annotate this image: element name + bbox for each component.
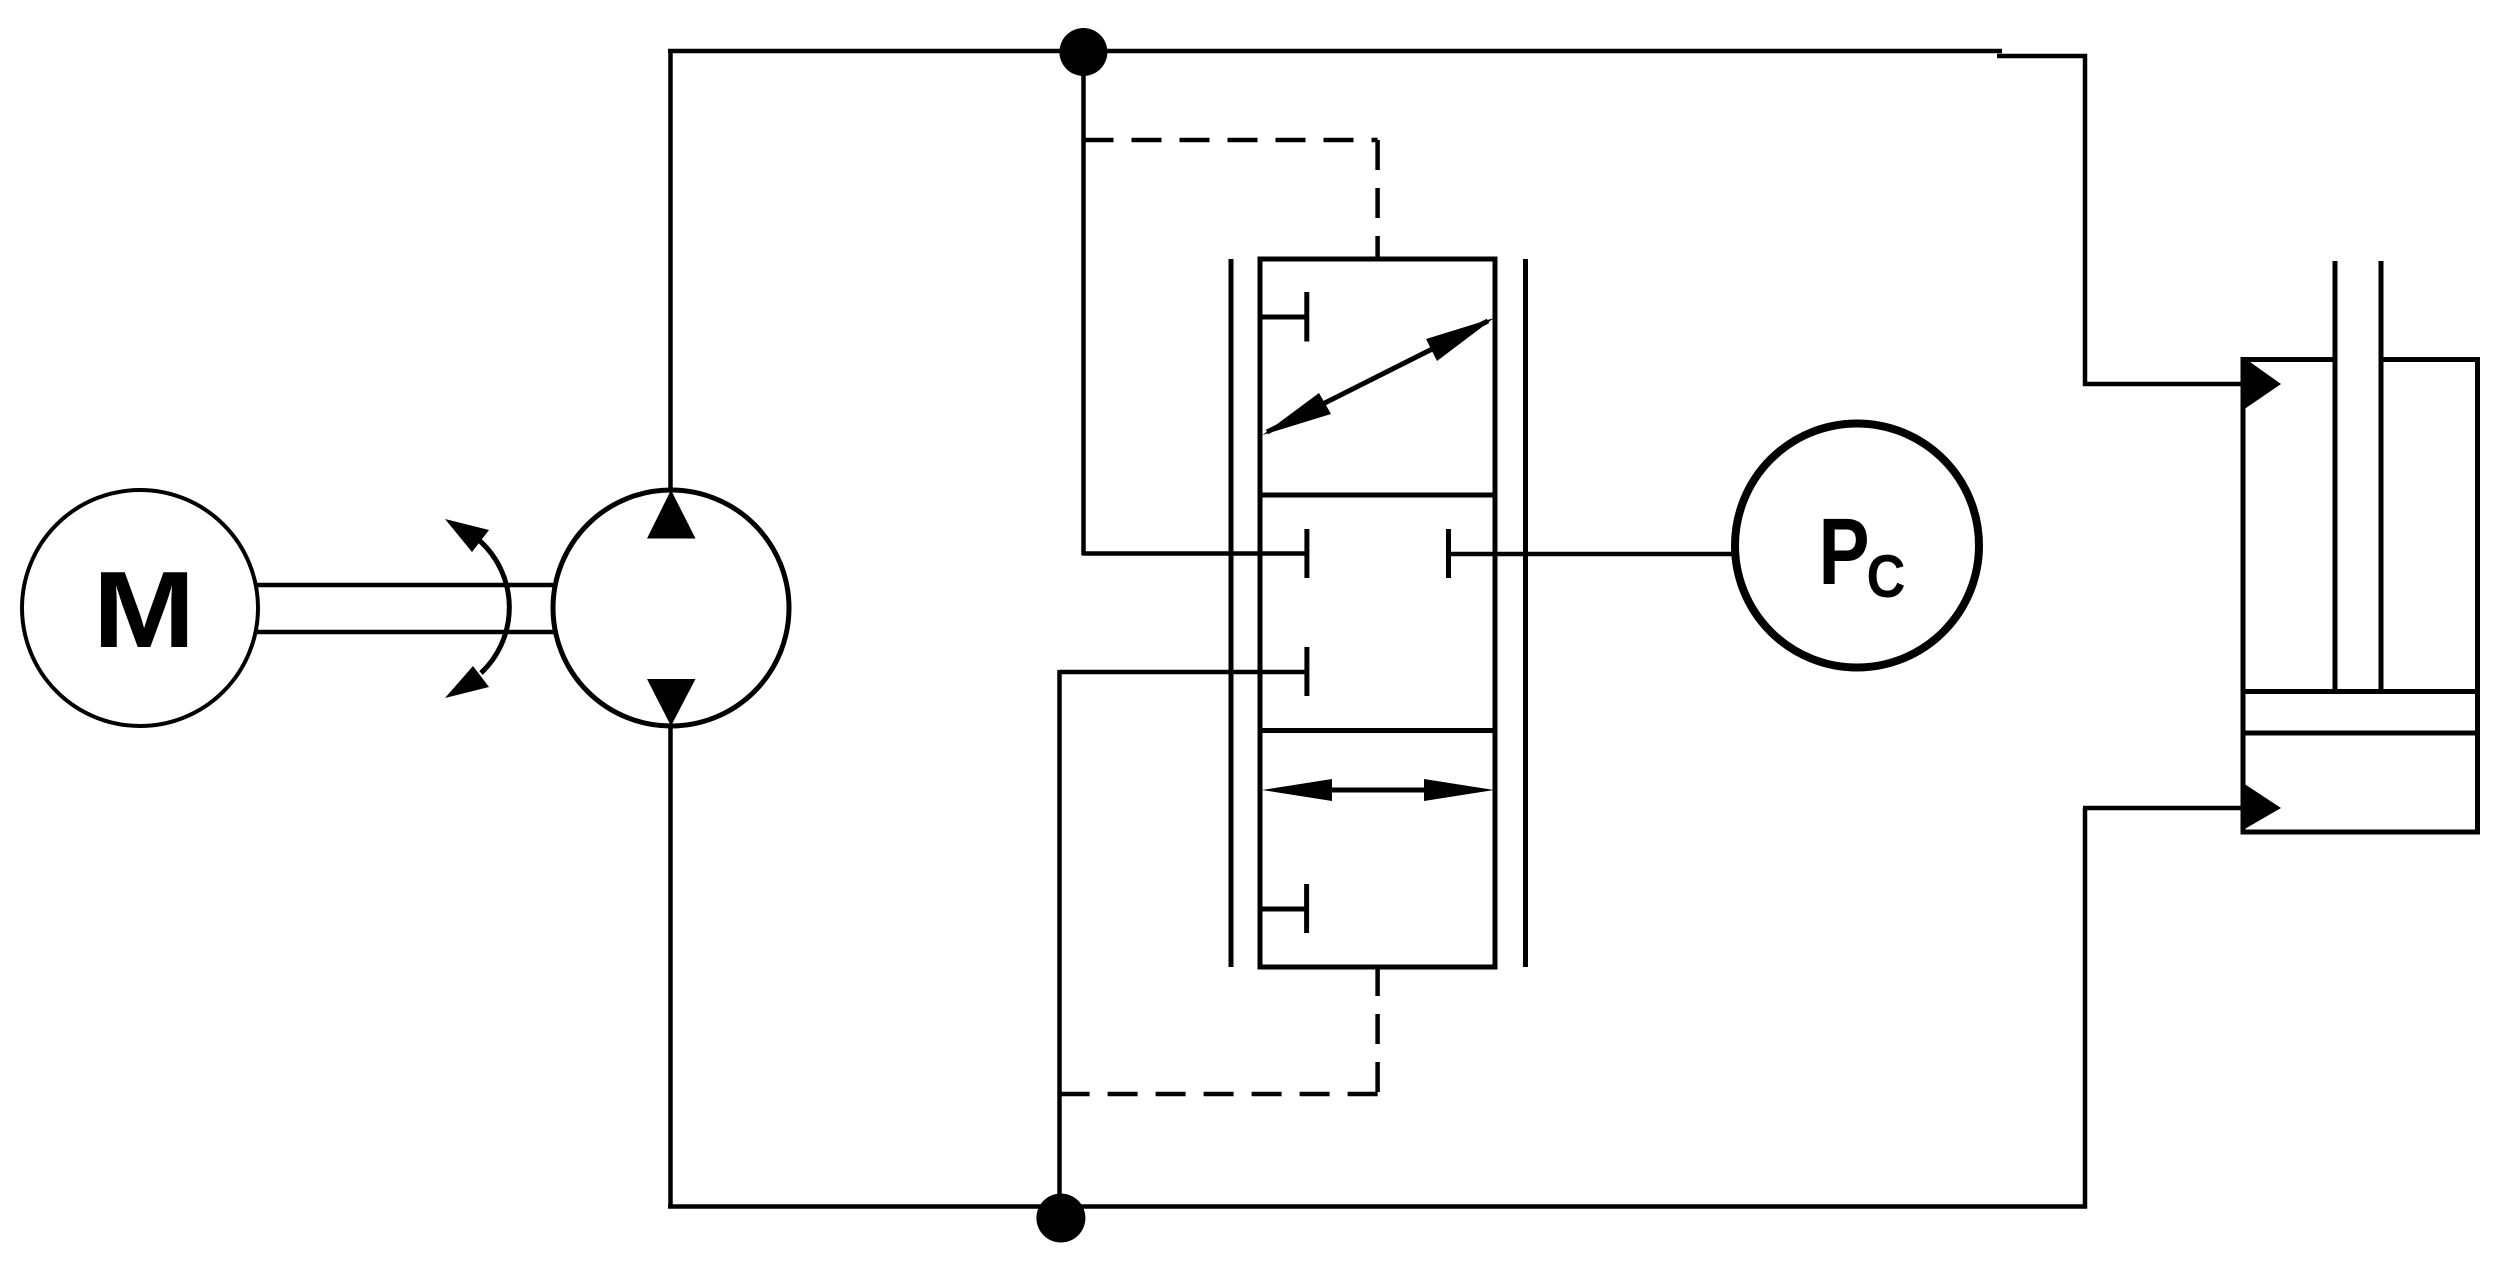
- cylinder body bottom edge: [2241, 830, 2481, 835]
- wire pump top to top rail: [668, 50, 673, 492]
- valve middle lower-left blocked port tick: [1304, 647, 1309, 696]
- wire down to bottom rail: [1057, 670, 1062, 1210]
- pump P1 bottom triangle: [647, 679, 696, 726]
- wire top rail right: [1997, 54, 2087, 59]
- valve V1 body box: [1260, 259, 1495, 967]
- pilot dashed line bottom vertical: [1375, 966, 1380, 1094]
- cylinder body top edge left segment: [2241, 357, 2336, 362]
- valve top section blocked port: [1260, 315, 1307, 320]
- valve middle left blocked port tick: [1304, 529, 1309, 578]
- bottom arrow right head: [1424, 779, 1494, 801]
- wire into cylinder head port: [2083, 382, 2245, 387]
- motor M1 label: [93, 549, 196, 671]
- pilot dashed line bottom horizontal: [1060, 1092, 1378, 1097]
- wire valve lower-left port: [1060, 670, 1307, 675]
- cylinder body top edge right segment: [2381, 357, 2480, 362]
- rotation arrowhead bottom: [445, 666, 489, 698]
- cylinder rod port arrow: [2243, 783, 2281, 830]
- valve middle right blocked port tick: [1446, 529, 1451, 578]
- cylinder body left edge: [2241, 357, 2246, 832]
- shaft upper line: [257, 583, 555, 588]
- gauge Pc label: [1818, 499, 1869, 604]
- pilot dashed line top horizontal: [1084, 138, 1378, 143]
- gauge Pc circle: [1735, 424, 1979, 668]
- gauge Pc subscript: [1867, 543, 1906, 610]
- valve V1 divider top: [1260, 493, 1495, 498]
- pilot dashed line top vertical: [1375, 140, 1380, 259]
- valve top section diagonal arrow shaft: [1267, 321, 1488, 432]
- cylinder piston rod right line: [2379, 261, 2384, 691]
- wire top rail down to cylinder head port: [2083, 54, 2088, 386]
- valve V1 divider bottom: [1260, 728, 1495, 733]
- svg-text:C: C: [1867, 543, 1906, 610]
- wire bottom rail: [668, 1204, 2087, 1209]
- wire valve right port to gauge: [1449, 552, 1738, 557]
- rotation arrow arc: [480, 541, 509, 673]
- diagonal arrowhead upper right: [1426, 318, 1494, 361]
- wire into cylinder rod port: [2083, 806, 2245, 811]
- svg-text:P: P: [1818, 499, 1869, 604]
- rotation arrowhead top: [445, 519, 489, 552]
- junction node bottom: [1036, 1194, 1085, 1243]
- valve V1 left side line: [1229, 259, 1234, 967]
- wire pump bottom to bottom rail: [668, 724, 673, 1208]
- junction node top: [1059, 28, 1107, 76]
- wire to valve middle left port: [1084, 551, 1307, 556]
- shaft lower line: [257, 630, 555, 635]
- wire junction down to valve left port: [1081, 52, 1086, 556]
- valve V1 right side line: [1523, 259, 1528, 967]
- pump P1 circle: [553, 490, 789, 726]
- cylinder piston upper line: [2243, 689, 2478, 694]
- cylinder piston lower line: [2243, 731, 2478, 736]
- svg-text:M: M: [93, 549, 196, 671]
- cylinder piston rod left line: [2333, 261, 2338, 691]
- cylinder body right edge: [2475, 357, 2480, 832]
- bottom arrow left head: [1262, 779, 1332, 801]
- motor M1 circle: [22, 490, 258, 726]
- diagonal arrowhead lower left: [1263, 393, 1332, 435]
- pump P1 top triangle: [647, 490, 696, 539]
- valve bottom blocked port: [1260, 907, 1307, 912]
- wire cylinder rod port down to bottom rail: [2083, 808, 2088, 1209]
- wire top rail left: [668, 49, 2002, 54]
- cylinder head port arrow: [2243, 357, 2281, 410]
- valve bottom section double arrow shaft: [1330, 788, 1426, 793]
